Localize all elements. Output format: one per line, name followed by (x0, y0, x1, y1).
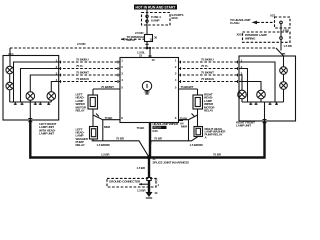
module label (153, 122, 179, 133)
splice junction (147, 156, 151, 160)
wire (283, 74, 285, 81)
svg-text:RELAY: RELAY (76, 109, 85, 113)
svg-text:75 BK/GN: 75 BK/GN (76, 77, 89, 81)
ground connector callout box (107, 178, 156, 187)
svg-text:RELAY: RELAY (127, 38, 136, 42)
svg-text:M6/4: M6/4 (181, 125, 188, 129)
lamp box pin numbers (56, 59, 243, 83)
reference wire to interval relay (121, 35, 145, 42)
bold ground wire from right lamp (149, 121, 265, 158)
svg-text:75 BK/BU: 75 BK/BU (76, 58, 88, 62)
wire to ground (148, 181, 150, 193)
pin ticks left (61, 61, 119, 83)
left relay 1 label (76, 93, 87, 113)
svg-text:SPLICE JOINT IN HARNESS: SPLICE JOINT IN HARNESS (153, 161, 190, 165)
bold ground wire from left lamp (30, 120, 149, 158)
wire pin3 to fog bulb (30, 75, 58, 92)
svg-text:1.5 RD: 1.5 RD (283, 44, 292, 48)
svg-text:LAMP UNIT: LAMP UNIT (236, 124, 251, 128)
left headlamp assembly box (3, 56, 59, 121)
bulb low beam right (280, 67, 288, 75)
right relay junction (179, 109, 198, 141)
svg-text:8 AMP: 8 AMP (151, 19, 159, 23)
right lower pin wire 75 BK/WT (179, 85, 198, 89)
wire fuse to connector 30 (146, 25, 148, 35)
svg-text:15: 15 (150, 38, 154, 42)
svg-text:75 BR: 75 BR (154, 136, 163, 140)
svg-text:BOX: BOX (172, 16, 178, 20)
svg-text:75 BK/WT: 75 BK/WT (101, 85, 114, 89)
wire X27 to X53 4 RD (281, 24, 290, 37)
svg-text:LAMP UNIT: LAMP UNIT (39, 132, 54, 136)
left wiper relay 2 (90, 127, 98, 140)
right relay 1 label (204, 93, 215, 113)
bulb park right (257, 90, 266, 102)
ground symbol W10 (146, 191, 158, 198)
wire pin1 return (14, 62, 59, 102)
left relay 2 label (76, 128, 89, 148)
bulb park left (47, 92, 56, 102)
right wiper relay 2 (194, 127, 203, 137)
svg-text:HOT IN RUN AND START: HOT IN RUN AND START (136, 5, 177, 9)
svg-text:X53: X53 (237, 33, 242, 37)
svg-text:75 BK/WT: 75 BK/WT (201, 71, 214, 75)
left inner ground bus (10, 101, 52, 103)
wire pin4 to turn bulb (51, 82, 58, 92)
svg-text:75 YL: 75 YL (76, 64, 84, 68)
right relay 2 label (205, 127, 227, 140)
splice node S75 (146, 47, 149, 50)
wire pin2 return (21, 69, 59, 103)
bulb high beam left (6, 82, 14, 90)
svg-text:PUMP RELAY: PUMP RELAY (205, 133, 223, 137)
svg-text:75 BK/WT: 75 BK/WT (76, 71, 89, 75)
wire X53 down to bus (280, 39, 282, 50)
svg-text:75 BK/WT: 75 BK/WT (181, 85, 194, 89)
relay module box (120, 58, 179, 123)
motor symbol in module (142, 81, 151, 94)
wires left lamp to module (59, 58, 120, 62)
bold ground drop (148, 157, 150, 178)
svg-text:M6/2: M6/2 (104, 125, 111, 129)
ground connector symbols right box (249, 102, 278, 105)
svg-text:WIRING: WIRING (245, 36, 256, 40)
svg-text:15: 15 (152, 58, 156, 62)
wire 30 to splice (146, 42, 148, 49)
left relay junction (93, 109, 120, 141)
bulb low beam left (6, 66, 14, 74)
svg-text:75 BK/GN: 75 BK/GN (201, 77, 214, 81)
header bar HOT IN RUN AND START (134, 5, 177, 10)
right box exit stub (264, 102, 266, 121)
bulb fog left (26, 92, 35, 102)
connector box X27 (dashed) (270, 14, 290, 29)
fuse value label (151, 15, 161, 23)
left lamp assembly label (39, 122, 56, 136)
svg-text:75 BK: 75 BK (137, 126, 146, 130)
wire (9, 74, 11, 82)
left 75 BR branch to splice (92, 136, 149, 157)
svg-text:75 BR: 75 BR (116, 136, 125, 140)
svg-text:1.5 BR/RD: 1.5 BR/RD (190, 143, 204, 147)
fuse F4 (146, 13, 148, 26)
svg-text:FLASH: FLASH (230, 21, 239, 25)
left relay 2 ground stub (92, 139, 94, 141)
bulb fog right (238, 90, 247, 102)
fuse/relay box label (172, 13, 184, 20)
arrow to headlamp flash (230, 18, 275, 25)
svg-text:1.5 BR/RD: 1.5 BR/RD (97, 143, 111, 147)
left wiper relay 1 (88, 89, 98, 109)
main dashed bus 2.5 RD (10, 47, 276, 49)
wire header to fuse box (146, 10, 148, 13)
right bulb feed chain (283, 56, 285, 67)
svg-text:RELAY: RELAY (204, 109, 213, 113)
fuse box (dashed) (142, 13, 171, 26)
ground connector symbols left box (14, 102, 50, 105)
right headlamp assembly box (239, 56, 296, 121)
svg-text:10: 10 (154, 191, 158, 195)
svg-text:15: 15 (139, 54, 143, 58)
wires module to right lamp (179, 58, 276, 102)
wire (9, 90, 11, 102)
ground connector G (147, 178, 160, 187)
svg-text:1.5 BR: 1.5 BR (101, 153, 110, 157)
pin ticks right (181, 61, 238, 83)
module bottom bold wire (149, 123, 151, 158)
svg-text:HEADLAMP WIPER: HEADLAMP WIPER (153, 122, 179, 126)
right diagonal drop to lamp assembly (276, 48, 284, 56)
svg-text:2.5 RD: 2.5 RD (77, 42, 86, 46)
left bulb feed chain (9, 56, 11, 67)
svg-text:75 BK: 75 BK (105, 116, 114, 120)
svg-text:30: 30 (154, 36, 158, 40)
svg-text:RELAY: RELAY (76, 143, 85, 147)
module bottom right tick (179, 121, 184, 126)
svg-text:75 BR: 75 BR (213, 153, 222, 157)
svg-text:75 BK: 75 BK (180, 117, 189, 121)
right 75 BR branch to splice (149, 136, 204, 157)
right inner ground bus (242, 101, 284, 103)
svg-text:K40: K40 (153, 129, 159, 133)
connector box 30 (145, 35, 153, 42)
svg-text:75 BK/BU: 75 BK/BU (201, 58, 213, 62)
svg-text:75 YL: 75 YL (201, 64, 209, 68)
module top feed (149, 48, 151, 58)
svg-text:X27: X27 (270, 14, 275, 18)
right wiper relay 1 (193, 89, 203, 109)
wire (283, 89, 285, 102)
bulb high beam right (280, 82, 288, 90)
left lower pin wire 75 BK/WT (93, 85, 120, 89)
left drop to lamp assembly (9, 48, 11, 56)
module pin numbers (121, 58, 177, 120)
svg-text:1.5 BR: 1.5 BR (137, 189, 146, 193)
left box exit stub (29, 102, 31, 120)
svg-text:1.5 BR: 1.5 BR (137, 166, 146, 170)
connector box X53 interior lamps (dashed) (237, 32, 291, 42)
right lamp assembly label (236, 121, 255, 128)
svg-text:GROUND CONNECTOR: GROUND CONNECTOR (109, 179, 141, 183)
